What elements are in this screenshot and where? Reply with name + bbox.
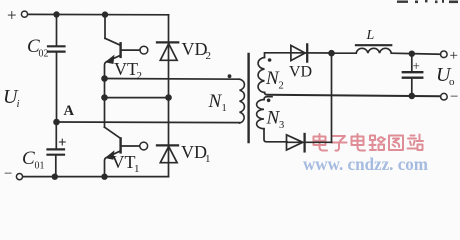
transistor VT1 <box>104 98 106 128</box>
polarity dot N2 <box>268 58 272 62</box>
- input terminal <box>16 174 22 180</box>
svg-text:+: + <box>413 58 420 73</box>
svg-text:3: 3 <box>279 120 284 131</box>
wire: midpoint link to diode leg <box>105 97 169 99</box>
wire: bottom rail <box>23 176 169 178</box>
svg-text:VT: VT <box>112 152 136 172</box>
watermark site name 电子电路图站 (drawn as vector strokes) <box>314 134 424 151</box>
polarity dot N3 <box>267 99 271 103</box>
rectifier diode lower (N3 branch) <box>287 135 303 150</box>
wire: C01 to bottom rail <box>55 156 57 177</box>
svg-text:i: i <box>17 98 20 110</box>
- output terminal <box>441 93 448 100</box>
wire: center tap to output minus <box>265 93 441 97</box>
junction dot C02 top <box>53 11 59 17</box>
inductor L <box>332 52 357 54</box>
+ input terminal <box>21 11 27 17</box>
svg-text:+: + <box>58 135 67 151</box>
polarity dot N1 <box>228 74 232 78</box>
+ output terminal <box>441 51 448 58</box>
junction dot C01 bottom <box>52 174 58 180</box>
路 <box>370 136 386 151</box>
wire: midpoint vertical <box>104 79 106 98</box>
capacitor C02 <box>48 46 65 51</box>
wire: midpoint to N1 top <box>105 78 240 81</box>
svg-text:−: − <box>450 89 458 105</box>
svg-text:VT: VT <box>114 59 138 79</box>
junction dot midpoint lower <box>101 94 108 101</box>
svg-text:−: − <box>4 166 12 181</box>
secondary N2 winding <box>265 53 332 58</box>
站 <box>408 135 424 151</box>
diode VD1 <box>168 98 170 177</box>
junction dot VT2 collector top <box>102 11 108 17</box>
图 <box>389 136 403 151</box>
svg-text:A: A <box>64 103 75 119</box>
svg-text:VD: VD <box>182 39 208 59</box>
电 <box>314 134 328 151</box>
secondary N3 winding <box>264 97 272 100</box>
junction dot filter cap bottom <box>409 93 416 100</box>
svg-text:2: 2 <box>206 50 212 62</box>
wire: left rail middle <box>56 52 58 121</box>
svg-text:o: o <box>449 76 455 88</box>
transformer core <box>247 54 249 142</box>
svg-text:www. cndzz. com: www. cndzz. com <box>303 154 428 174</box>
junction dot VD cathode <box>328 50 335 57</box>
rectifier diode VD <box>291 45 305 60</box>
diode VD2 <box>168 15 170 98</box>
电 <box>352 134 366 151</box>
cropped caption fragments at top edge <box>397 0 458 3</box>
svg-text:L: L <box>366 28 375 43</box>
wire: left rail lower <box>55 122 57 148</box>
wire: lower diode to top rail <box>331 53 333 142</box>
filter capacitor <box>411 54 413 71</box>
transistor VT2 <box>104 15 106 39</box>
svg-text:01: 01 <box>35 161 45 172</box>
svg-text:N: N <box>208 91 223 112</box>
junction dot VT2 emitter <box>101 75 108 82</box>
svg-text:2: 2 <box>137 70 143 82</box>
capacitor C01 <box>48 149 65 154</box>
node A dot <box>53 119 60 126</box>
svg-text:1: 1 <box>134 163 140 175</box>
svg-text:+: + <box>450 48 458 64</box>
svg-text:VD: VD <box>181 142 207 162</box>
svg-text:1: 1 <box>222 103 227 114</box>
junction dot filter cap top <box>409 51 415 57</box>
svg-text:C: C <box>22 148 35 169</box>
svg-text:+: + <box>7 6 17 25</box>
子 <box>332 136 347 151</box>
svg-text:2: 2 <box>279 81 284 92</box>
junction dot diode midpoint <box>165 94 172 101</box>
wire: left rail upper <box>56 15 58 46</box>
wire: node A to N1 bottom <box>57 121 240 124</box>
svg-text:1: 1 <box>205 153 211 165</box>
junction dot VT1 emitter bottom <box>101 174 107 180</box>
wire: top rail <box>28 13 169 15</box>
svg-text:02: 02 <box>39 49 49 60</box>
svg-text:VD: VD <box>289 64 312 81</box>
transformer primary N1 winding <box>240 79 245 123</box>
